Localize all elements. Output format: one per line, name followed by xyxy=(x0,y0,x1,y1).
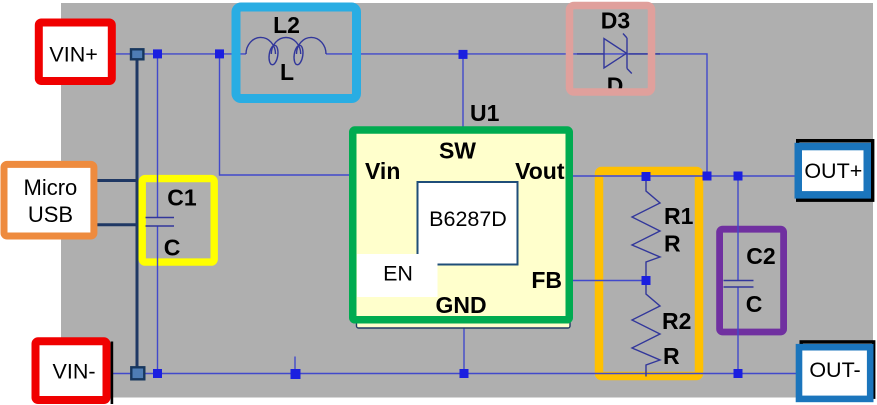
svg-text:R1: R1 xyxy=(664,203,694,229)
inductor L2 xyxy=(236,7,357,99)
junction node C2 top xyxy=(734,172,743,181)
wire Vout rail xyxy=(570,175,797,177)
svg-text:C1: C1 xyxy=(167,185,197,211)
capacitor C1 xyxy=(146,185,197,261)
svg-text:Vin: Vin xyxy=(365,158,400,184)
port VIN- xyxy=(36,341,114,404)
op-amp U1 (IC B6287D) xyxy=(353,100,570,328)
svg-text:GND: GND xyxy=(435,292,486,318)
wire VIN+ to L2 xyxy=(114,53,246,55)
junction node on C1 top xyxy=(153,49,162,58)
junction node diode output xyxy=(703,172,712,181)
junction node Vin feed top xyxy=(215,49,224,58)
svg-text:Micro: Micro xyxy=(24,175,78,200)
svg-text:FB: FB xyxy=(531,267,562,293)
capacitor C2 xyxy=(724,243,776,317)
svg-text:EN: EN xyxy=(383,262,413,286)
junction node FB xyxy=(642,276,651,285)
junction node stub bottom xyxy=(291,369,301,379)
wire C2 lower lead xyxy=(737,287,739,374)
svg-text:C: C xyxy=(746,291,763,317)
port Micro USB xyxy=(4,164,94,236)
svg-text:D3: D3 xyxy=(601,8,630,34)
wire C1 upper lead xyxy=(157,54,159,218)
svg-text:C: C xyxy=(164,235,181,261)
svg-text:Vout: Vout xyxy=(515,158,565,184)
wire ground rail xyxy=(111,373,797,375)
wire C1 lower lead xyxy=(157,226,159,374)
junction node SW xyxy=(459,50,468,59)
wire thick Micro USB lower lead xyxy=(94,223,139,226)
highlight box C1 xyxy=(142,179,214,263)
svg-text:R: R xyxy=(664,231,681,257)
svg-text:R: R xyxy=(663,343,680,369)
junction node C1 bottom xyxy=(153,369,162,378)
wire SW drop to U1 xyxy=(462,54,464,129)
resistor R1 xyxy=(632,177,694,281)
port VIN+ xyxy=(39,23,112,82)
svg-text:C2: C2 xyxy=(746,243,775,269)
port OUT+ xyxy=(798,141,873,201)
svg-text:R2: R2 xyxy=(662,308,691,334)
svg-text:U1: U1 xyxy=(470,100,500,126)
svg-text:OUT+: OUT+ xyxy=(804,159,862,183)
wire stub on ground rail xyxy=(294,357,296,374)
port OUT- xyxy=(799,342,874,399)
svg-text:L: L xyxy=(280,59,294,85)
highlight box resistor divider R1 R2 xyxy=(599,171,699,376)
svg-text:L2: L2 xyxy=(273,12,300,38)
node VIN+ bus top xyxy=(131,49,143,59)
highlight box C2 xyxy=(720,229,784,332)
junction node C2 bottom xyxy=(734,369,743,378)
wire C2 upper lead xyxy=(737,176,739,281)
svg-text:OUT-: OUT- xyxy=(809,358,860,382)
svg-text:B6287D: B6287D xyxy=(429,207,507,231)
wire GND drop xyxy=(463,328,465,374)
wire L2 to D3 to corner down to Vout rail xyxy=(326,54,707,176)
wire thick Micro USB upper lead xyxy=(94,179,139,182)
resistor R2 xyxy=(632,281,691,377)
svg-text:USB: USB xyxy=(28,202,73,227)
diode D3 xyxy=(570,6,661,99)
junction node GND bottom xyxy=(460,369,469,378)
svg-text:VIN-: VIN- xyxy=(53,360,96,384)
svg-text:SW: SW xyxy=(439,138,476,164)
wire FB xyxy=(570,280,646,282)
wire Vin feed xyxy=(220,54,352,175)
node VIN- bus bottom xyxy=(131,367,144,379)
junction node R1 top xyxy=(642,172,651,181)
svg-text:VIN+: VIN+ xyxy=(49,43,97,67)
wire thick VIN bus vertical xyxy=(136,55,139,372)
